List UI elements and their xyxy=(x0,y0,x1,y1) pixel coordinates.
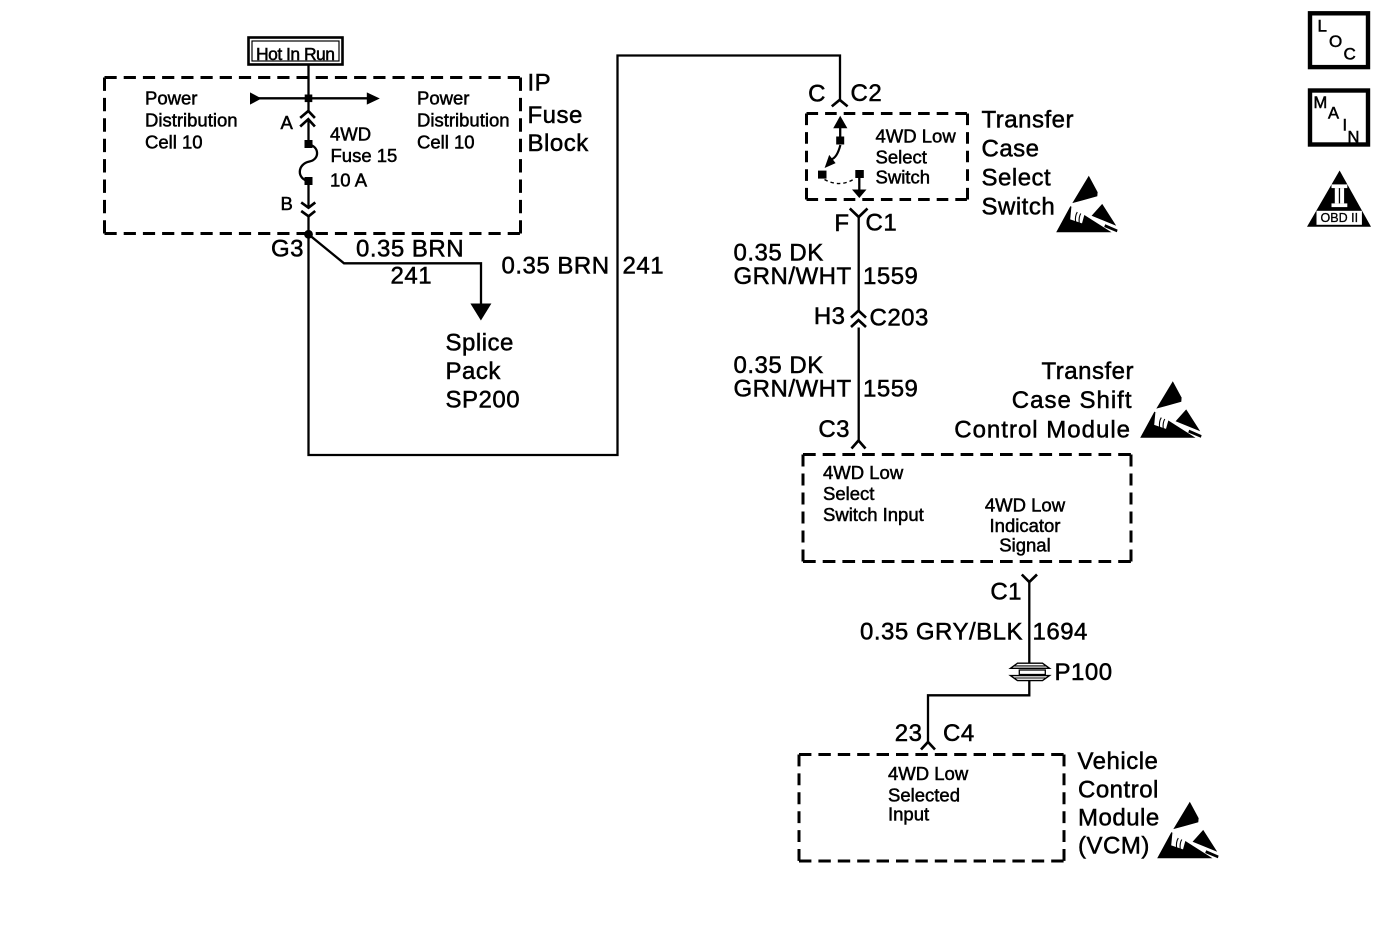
svg-text:C203: C203 xyxy=(870,305,929,332)
svg-text:IP: IP xyxy=(528,70,552,97)
svg-text:Select: Select xyxy=(982,165,1052,192)
svg-text:241: 241 xyxy=(391,263,433,290)
svg-text:Switch: Switch xyxy=(876,167,931,188)
svg-text:N: N xyxy=(1348,129,1360,147)
svg-text:4WD Low: 4WD Low xyxy=(985,495,1066,516)
svg-text:Select: Select xyxy=(823,483,874,504)
svg-text:1559: 1559 xyxy=(863,376,918,403)
svg-text:Select: Select xyxy=(876,147,927,168)
svg-text:1559: 1559 xyxy=(863,263,918,290)
svg-text:L: L xyxy=(1318,17,1327,36)
svg-text:C4: C4 xyxy=(943,720,975,747)
svg-text:A: A xyxy=(1328,104,1339,122)
svg-text:Splice: Splice xyxy=(446,330,514,357)
svg-text:Cell 10: Cell 10 xyxy=(417,132,475,153)
svg-text:C: C xyxy=(808,81,826,108)
svg-text:(VCM): (VCM) xyxy=(1078,833,1150,860)
svg-text:A: A xyxy=(281,112,294,133)
svg-text:0.35 BRN: 0.35 BRN xyxy=(502,253,610,280)
svg-text:Signal: Signal xyxy=(999,535,1050,556)
svg-text:Pack: Pack xyxy=(446,358,502,385)
svg-text:I: I xyxy=(1343,116,1348,134)
svg-text:Transfer: Transfer xyxy=(982,107,1074,134)
svg-text:0.35 BRN: 0.35 BRN xyxy=(356,236,464,263)
svg-text:C1: C1 xyxy=(866,210,898,237)
svg-text:Cell 10: Cell 10 xyxy=(145,132,203,153)
svg-text:GRN/WHT: GRN/WHT xyxy=(734,263,852,290)
svg-text:Hot In Run: Hot In Run xyxy=(256,44,335,64)
svg-text:O: O xyxy=(1329,32,1342,51)
svg-text:C: C xyxy=(1344,44,1356,63)
svg-text:Control Module: Control Module xyxy=(954,417,1131,444)
svg-text:Power: Power xyxy=(417,88,469,109)
svg-text:C3: C3 xyxy=(818,416,850,443)
svg-text:Distribution: Distribution xyxy=(145,110,238,131)
svg-text:4WD Low: 4WD Low xyxy=(888,763,969,784)
svg-text:GRN/WHT: GRN/WHT xyxy=(734,376,852,403)
svg-text:10 A: 10 A xyxy=(330,169,368,190)
svg-text:P100: P100 xyxy=(1055,659,1113,686)
svg-text:Control: Control xyxy=(1078,777,1159,804)
svg-text:Switch Input: Switch Input xyxy=(823,504,924,525)
svg-text:Case: Case xyxy=(982,136,1040,163)
svg-text:C1: C1 xyxy=(990,579,1022,606)
svg-text:M: M xyxy=(1314,94,1328,112)
svg-text:SP200: SP200 xyxy=(446,387,521,414)
svg-text:4WD: 4WD xyxy=(330,124,371,145)
svg-text:Switch: Switch xyxy=(982,194,1056,221)
svg-text:Module: Module xyxy=(1078,805,1160,832)
svg-text:OBD II: OBD II xyxy=(1321,211,1359,225)
svg-text:0.35 GRY/BLK: 0.35 GRY/BLK xyxy=(860,619,1023,646)
svg-text:Case Shift: Case Shift xyxy=(1012,387,1133,414)
svg-text:C2: C2 xyxy=(851,80,883,107)
svg-text:1694: 1694 xyxy=(1033,619,1088,646)
svg-text:Power: Power xyxy=(145,88,197,109)
svg-text:Indicator: Indicator xyxy=(990,515,1061,536)
svg-text:4WD Low: 4WD Low xyxy=(823,462,904,483)
svg-text:Vehicle: Vehicle xyxy=(1078,748,1159,775)
svg-text:Input: Input xyxy=(888,804,929,825)
svg-text:Selected: Selected xyxy=(888,785,960,806)
svg-text:241: 241 xyxy=(623,253,665,280)
svg-text:4WD Low: 4WD Low xyxy=(876,126,957,147)
svg-text:Transfer: Transfer xyxy=(1042,358,1134,385)
svg-text:Distribution: Distribution xyxy=(417,110,510,131)
svg-text:F: F xyxy=(834,210,849,237)
svg-text:H3: H3 xyxy=(814,303,846,330)
svg-text:Fuse 15: Fuse 15 xyxy=(331,145,398,166)
svg-text:Fuse: Fuse xyxy=(528,102,583,129)
svg-text:B: B xyxy=(281,193,293,214)
svg-text:Block: Block xyxy=(528,130,590,157)
svg-text:G3: G3 xyxy=(271,236,304,263)
svg-text:23: 23 xyxy=(895,720,923,747)
